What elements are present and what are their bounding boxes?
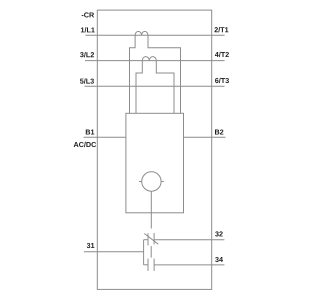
test button left tick [139, 181, 142, 183]
label B2 [215, 129, 223, 134]
CT outline right (L1 sensor) [148, 35, 181, 113]
label AC/DC [74, 142, 96, 147]
CT winding humps on L1 [135, 31, 148, 35]
wire B1 [84, 136, 127, 138]
label -CR [82, 12, 94, 17]
label 4/T2 [215, 52, 229, 57]
label B1 [86, 130, 95, 135]
NC contact 31-32 left plate [147, 233, 149, 245]
label 32 [215, 231, 223, 236]
label 5/L3 [80, 78, 94, 83]
test button right tick [161, 181, 164, 183]
label 34 [215, 257, 223, 262]
test button circle [142, 172, 161, 191]
wire 3/L2 to 4/T2 [85, 60, 225, 62]
NC contact left lead [144, 239, 148, 241]
NC contact break slash [144, 234, 158, 245]
wire 32 [154, 239, 224, 241]
wire 1/L1 to 2/T1 [85, 34, 224, 36]
mechanical link between contacts [150, 246, 152, 258]
NO contact 31-34 right plate [153, 259, 155, 271]
label 2/T1 [214, 27, 228, 32]
wire 5/L3 to 6/T3 [85, 85, 225, 87]
NC contact 31-32 right plate [153, 233, 155, 244]
CT winding humps on L2 [142, 57, 156, 61]
mechanical link from button [150, 191, 152, 228]
NO contact left lead [144, 264, 148, 266]
label 6/T3 [215, 78, 229, 83]
wire 34 [154, 264, 224, 266]
common bus vertical [143, 240, 145, 265]
NO contact 31-34 left plate [147, 259, 149, 271]
CT outline left (L2 sensor) [136, 61, 142, 114]
relay body box [126, 113, 184, 213]
label 1/L1 [81, 27, 95, 32]
frame (device boundary -CR) [97, 10, 211, 289]
CT outline left (L1 sensor) [130, 35, 136, 113]
wire B2 [184, 136, 226, 138]
label 3/L2 [80, 52, 94, 57]
label 31 [87, 243, 95, 248]
CT outline right (L2 sensor) [156, 61, 174, 114]
wire 31 common [84, 251, 144, 253]
